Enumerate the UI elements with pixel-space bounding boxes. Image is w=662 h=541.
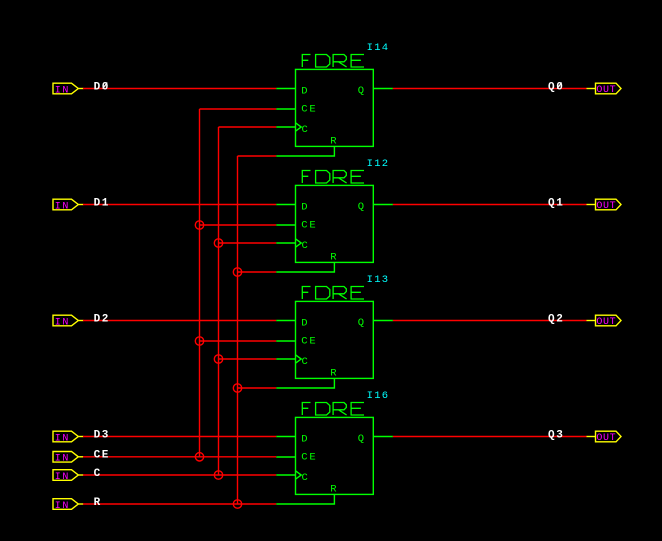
pin R of I16 <box>276 483 338 504</box>
svg-text:IN: IN <box>55 433 70 444</box>
pin R of I13 <box>276 367 338 388</box>
wire CE branch to I14 <box>200 108 277 110</box>
wire C branch to I14 <box>219 126 277 128</box>
svg-text:D: D <box>301 201 309 213</box>
symbol name FDRE (I14) <box>302 55 364 68</box>
svg-text:I12: I12 <box>367 158 390 170</box>
wire net D2 (port to column) <box>83 320 276 322</box>
svg-text:IN: IN <box>55 501 70 512</box>
pin CE of I12 <box>276 220 317 232</box>
pin C (clock) of I12 <box>276 239 310 252</box>
wire net Q3 (I16.Q to port) <box>393 436 587 438</box>
wire R branch from I14 <box>238 155 277 157</box>
junction C bus / I13 <box>214 355 222 363</box>
junction CE bus / I13 <box>195 337 203 345</box>
wire net R (port to column) <box>83 503 276 505</box>
flip-flop I14 body (FDRE) <box>296 69 374 146</box>
svg-text:I13: I13 <box>367 274 390 286</box>
net label Q0 <box>548 81 564 93</box>
junction CE bus / I12 <box>195 221 203 229</box>
symbol name FDRE (I13) <box>302 287 364 300</box>
svg-text:IN: IN <box>55 454 70 465</box>
pin Q of I12 <box>358 201 393 213</box>
svg-text:Q2: Q2 <box>548 313 564 325</box>
svg-text:R: R <box>94 497 102 509</box>
net label D0 <box>94 81 110 93</box>
port OUT (Q0) <box>587 83 622 96</box>
net label Q1 <box>548 197 564 209</box>
svg-text:I16: I16 <box>367 390 390 402</box>
wire R branch from I12 <box>238 271 277 273</box>
svg-text:Q: Q <box>358 85 366 97</box>
svg-text:D: D <box>301 433 309 445</box>
svg-text:OUT: OUT <box>596 433 616 444</box>
net label D3 <box>94 429 110 441</box>
net label CE <box>94 450 110 462</box>
svg-text:D3: D3 <box>94 429 110 441</box>
svg-text:Q: Q <box>358 433 366 445</box>
pin C (clock) of I16 <box>276 471 310 484</box>
wire C branch to I13 <box>219 358 277 360</box>
net label D2 <box>94 313 110 325</box>
net label C <box>94 468 102 480</box>
wire C bus vertical <box>218 127 220 475</box>
junction R bus / I12 <box>233 268 241 276</box>
svg-text:D0: D0 <box>94 81 110 93</box>
wire CE bus vertical <box>199 109 201 457</box>
svg-text:D: D <box>301 85 309 97</box>
junction C bus / I12 <box>214 239 222 247</box>
pin CE of I14 <box>276 104 317 116</box>
net label Q2 <box>548 313 564 325</box>
pin Q of I13 <box>358 317 393 329</box>
instance label I12 <box>367 158 390 170</box>
pin Q of I16 <box>358 433 393 445</box>
pin CE of I16 <box>276 452 317 464</box>
pin C (clock) of I14 <box>276 123 310 136</box>
svg-text:C: C <box>94 468 102 480</box>
svg-text:CE: CE <box>301 336 317 348</box>
svg-text:R: R <box>330 483 338 495</box>
port IN (D1) <box>53 199 84 212</box>
svg-text:IN: IN <box>55 85 70 96</box>
wire net Q2 (I13.Q to port) <box>393 320 587 322</box>
svg-text:CE: CE <box>94 450 110 462</box>
port IN (C) <box>53 470 84 483</box>
wire net CE (port to column) <box>83 456 276 458</box>
net label R <box>94 497 102 509</box>
svg-text:CE: CE <box>301 452 317 464</box>
port IN (D2) <box>53 315 84 328</box>
junction R bus / R input <box>233 500 241 508</box>
flip-flop I13 body (FDRE) <box>296 301 374 378</box>
pin D of I13 <box>276 317 309 329</box>
flip-flop I16 body (FDRE) <box>296 417 374 494</box>
svg-text:OUT: OUT <box>596 317 616 328</box>
svg-text:Q3: Q3 <box>548 429 564 441</box>
wire R branch from I13 <box>238 387 277 389</box>
svg-text:I14: I14 <box>367 42 390 54</box>
wire net D3 (port to column) <box>83 436 276 438</box>
wire CE branch to I13 <box>200 340 277 342</box>
svg-text:C: C <box>302 240 310 252</box>
port IN (D0) <box>53 83 84 96</box>
port IN (D3) <box>53 431 84 444</box>
flip-flop I12 body (FDRE) <box>296 185 374 262</box>
junction C bus / C input <box>214 471 222 479</box>
svg-text:R: R <box>330 251 338 263</box>
wire net D0 (port to column) <box>83 88 276 90</box>
svg-text:IN: IN <box>55 472 70 483</box>
wire net D1 (port to column) <box>83 204 276 206</box>
svg-text:D1: D1 <box>94 197 110 209</box>
junction R bus / I13 <box>233 384 241 392</box>
junction CE bus / CE input <box>195 453 203 461</box>
svg-text:OUT: OUT <box>596 85 616 96</box>
net label Q3 <box>548 429 564 441</box>
svg-text:IN: IN <box>55 317 70 328</box>
symbol name FDRE (I12) <box>302 171 364 184</box>
svg-text:IN: IN <box>55 201 70 212</box>
instance label I16 <box>367 390 390 402</box>
instance label I13 <box>367 274 390 286</box>
svg-text:D2: D2 <box>94 313 110 325</box>
svg-text:C: C <box>302 356 310 368</box>
pin C (clock) of I13 <box>276 355 310 368</box>
pin D of I16 <box>276 433 309 445</box>
svg-text:R: R <box>330 367 338 379</box>
svg-text:Q1: Q1 <box>548 197 564 209</box>
pin R of I12 <box>276 251 338 272</box>
port OUT (Q3) <box>587 431 622 444</box>
pin CE of I13 <box>276 336 317 348</box>
svg-text:C: C <box>302 472 310 484</box>
port IN (R) <box>53 499 84 512</box>
pin Q of I14 <box>358 85 393 97</box>
wire net C (port to column) <box>83 474 276 476</box>
svg-text:Q: Q <box>358 201 366 213</box>
port OUT (Q2) <box>587 315 622 328</box>
pin D of I12 <box>276 201 309 213</box>
wire net Q0 (I14.Q to port) <box>393 88 587 90</box>
svg-text:OUT: OUT <box>596 201 616 212</box>
svg-text:Q: Q <box>358 317 366 329</box>
pin R of I14 <box>276 135 338 156</box>
wire CE branch to I12 <box>200 224 277 226</box>
wire C branch to I12 <box>219 242 277 244</box>
svg-text:C: C <box>302 124 310 136</box>
wire net Q1 (I12.Q to port) <box>393 204 587 206</box>
instance label I14 <box>367 42 390 54</box>
svg-text:R: R <box>330 135 338 147</box>
pin D of I14 <box>276 85 309 97</box>
wire R bus vertical <box>237 156 239 504</box>
symbol name FDRE (I16) <box>302 403 364 416</box>
net label D1 <box>94 197 110 209</box>
port IN (CE) <box>53 452 84 465</box>
svg-text:Q0: Q0 <box>548 81 564 93</box>
svg-text:D: D <box>301 317 309 329</box>
svg-text:CE: CE <box>301 220 317 232</box>
svg-text:CE: CE <box>301 104 317 116</box>
port OUT (Q1) <box>587 199 622 212</box>
